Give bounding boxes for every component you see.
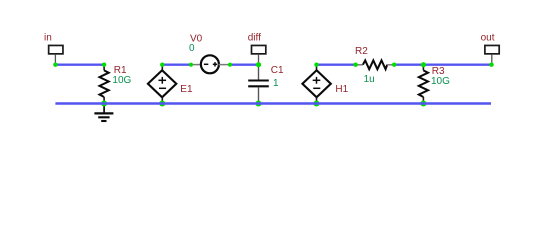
node H1 bottom	[314, 101, 320, 107]
port out	[481, 33, 500, 65]
resistor R1	[100, 65, 132, 104]
node V0 left	[189, 63, 193, 67]
svg-text:C1: C1	[271, 65, 284, 76]
node V0 right	[228, 63, 232, 67]
svg-text:H1: H1	[335, 84, 348, 95]
resistor R3	[419, 65, 450, 104]
svg-text:1u: 1u	[364, 74, 375, 85]
node R3 bottom	[420, 101, 426, 107]
svg-text:E1: E1	[180, 84, 193, 95]
wire E1-to-V0	[162, 63, 191, 65]
svg-text:diff: diff	[248, 33, 261, 44]
port in	[44, 32, 63, 64]
node E1 bottom	[159, 101, 165, 107]
svg-text:0: 0	[189, 43, 195, 54]
node R1 bottom	[101, 101, 107, 107]
resistor R2	[355, 46, 394, 85]
wire bottom rail	[55, 102, 491, 104]
node diff junction	[256, 62, 261, 67]
wire V0-to-diff	[230, 63, 259, 65]
wire R2-to-out	[394, 63, 491, 65]
node out	[489, 62, 493, 66]
node C1 bottom	[256, 101, 262, 107]
node R2 left	[353, 62, 357, 66]
node R3 top junction	[421, 62, 426, 67]
svg-text:10G: 10G	[431, 76, 450, 87]
svg-text:1: 1	[273, 78, 279, 89]
wire in-to-R1	[55, 63, 104, 65]
port diff	[248, 33, 266, 65]
node H1 top	[314, 62, 318, 66]
svg-text:in: in	[44, 32, 52, 43]
wire H1-to-R2	[317, 63, 356, 65]
node E1 top	[160, 62, 164, 66]
svg-text:R2: R2	[355, 46, 368, 57]
capacitor C1	[248, 65, 284, 104]
vcvs E1	[148, 65, 193, 104]
ccvs H1	[302, 65, 348, 104]
node R2 right	[392, 62, 396, 66]
voltage source V0	[189, 33, 230, 73]
svg-text:10G: 10G	[112, 75, 131, 86]
svg-text:out: out	[481, 33, 495, 44]
node in	[53, 62, 57, 66]
node R1 top	[102, 62, 106, 66]
ground	[94, 104, 113, 122]
